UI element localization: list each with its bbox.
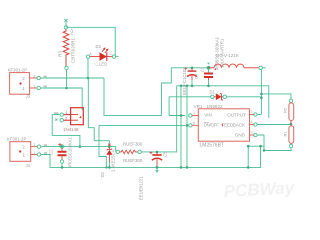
svg-text:C: C	[110, 52, 113, 56]
svg-text:R1: R1	[282, 131, 287, 137]
svg-text:ON/OFF: ON/OFF	[204, 123, 220, 128]
svg-text:A: A	[90, 52, 93, 56]
connector J1 outside pin labels	[34, 143, 48, 155]
ground mid rail	[177, 86, 269, 118]
svg-text:VIN: VIN	[204, 112, 212, 117]
wire J1 pin1 to ground rail	[41, 146, 261, 167]
junction R2 bottom wire	[263, 149, 265, 151]
svg-text:3: 3	[251, 131, 253, 135]
power +5 supply symbol	[64, 19, 67, 26]
svg-text:2: 2	[65, 116, 67, 120]
svg-text:RUEF300: RUEF300	[123, 158, 143, 163]
svg-text:D3: D3	[96, 44, 102, 49]
wire FEEDBACK pin to divider	[257, 124, 291, 126]
TVS diode D2	[106, 144, 112, 169]
wire inductor to output pin column	[260, 70, 262, 115]
U1 ON/OFF pin label	[204, 122, 220, 127]
wire ON/OFF control net	[99, 125, 185, 140]
svg-text:C5: C5	[163, 151, 168, 157]
wire LED right stub	[116, 56, 119, 58]
output top rail	[171, 67, 208, 69]
svg-text:1: 1	[34, 151, 36, 155]
svg-text:J3: J3	[26, 94, 31, 99]
svg-text:10UC-KARTR1: 10UC-KARTR1	[220, 38, 225, 68]
svg-text:5: 5	[193, 122, 195, 126]
svg-text:J1: J1	[26, 163, 31, 168]
connector J1 KF301-2P	[10, 142, 41, 162]
connector J3 outside pin labels	[34, 75, 47, 89]
resistor R3	[63, 26, 69, 70]
svg-text:C1: C1	[200, 66, 205, 72]
svg-text:FEEDBACK: FEEDBACK	[221, 123, 245, 128]
svg-text:LM2576BT: LM2576BT	[200, 142, 224, 148]
svg-text:+5V: +5V	[70, 28, 75, 36]
svg-text:1.5KE15CA: 1.5KE15CA	[110, 149, 115, 172]
svg-text:PCBWay: PCBWay	[223, 178, 296, 201]
svg-text:1N5822: 1N5822	[207, 104, 224, 109]
LED D3	[86, 48, 115, 61]
wire J3 pin1 net horizontal	[40, 88, 82, 110]
capacitor C1 ceramic	[204, 63, 213, 87]
svg-text:2: 2	[22, 76, 25, 81]
svg-text:RUEF300: RUEF300	[123, 142, 143, 147]
wire LED anode down to pin2 net	[87, 58, 90, 79]
pin header JP1	[54, 108, 83, 125]
fuse F1 RUEF300	[116, 150, 141, 154]
svg-text:VR1: VR1	[194, 104, 203, 109]
svg-text:EEUFC1C102: EEUFC1C102	[182, 67, 187, 95]
svg-text:2: 2	[22, 145, 25, 150]
svg-text:1: 1	[22, 153, 25, 158]
svg-text:KF301-2P: KF301-2P	[8, 67, 27, 72]
svg-text:4: 4	[251, 120, 253, 124]
wire GND pin to ground	[257, 135, 288, 151]
U1 feedback red tick mark	[221, 124, 223, 127]
capacitor C5 electrolytic	[150, 151, 163, 172]
svg-text:D1: D1	[210, 89, 216, 94]
svg-text:2: 2	[251, 110, 253, 114]
wire ON/OFF ground column	[186, 85, 189, 168]
svg-text:D2: D2	[100, 171, 105, 177]
svg-text:1N4148: 1N4148	[63, 127, 79, 132]
svg-text:C4: C4	[194, 73, 199, 79]
junction dots bottom rail	[105, 166, 188, 169]
svg-text:1: 1	[65, 111, 67, 115]
svg-text:C2: C2	[49, 149, 54, 155]
resistor R1 lower	[288, 125, 294, 151]
wire J3 pin2 net horizontal	[40, 77, 104, 79]
wire output net staircase to top rail	[104, 68, 171, 116]
svg-text:2: 2	[34, 143, 36, 147]
connector J3 KF301-2P	[10, 73, 41, 95]
wire VIN column from mid rail	[180, 85, 183, 168]
op-amp U1 LM2576BT regulator	[189, 109, 257, 141]
svg-text:1: 1	[193, 111, 195, 115]
wire LED anode net down left column	[88, 78, 94, 141]
wire ground rail end link	[247, 145, 264, 169]
svg-text:KF301-2P: KF301-2P	[7, 137, 26, 142]
svg-text:EEUEB1221: EEUEB1221	[138, 176, 143, 200]
diode D1 schottky	[211, 93, 227, 100]
inductor L1	[209, 64, 266, 70]
wire link to TVS top	[94, 141, 109, 147]
capacitor C2 polarity mark	[58, 143, 61, 146]
svg-text:4R05SC103KA1: 4R05SC103KA1	[68, 137, 73, 168]
svg-text:R3: R3	[58, 51, 63, 57]
wire JP1 pin1 to input net loop	[52, 115, 81, 148]
svg-text:R2: R2	[282, 107, 287, 113]
svg-text:∟LED: ∟LED	[95, 62, 107, 67]
wire diode row	[169, 97, 261, 116]
svg-text:CBT50J5R1: CBT50J5R1	[71, 38, 76, 63]
svg-text:2: 2	[34, 75, 36, 79]
wire TVS to fuse	[111, 147, 117, 152]
svg-text:GND: GND	[235, 133, 246, 138]
junction feedback divider	[290, 123, 293, 126]
junction output column to diode row	[260, 97, 263, 100]
svg-text:1: 1	[22, 86, 25, 91]
junction output column to R1 feed	[260, 93, 291, 97]
wire R3 top to LED cathode	[66, 26, 115, 55]
svg-text:OUTPUT: OUTPUT	[227, 112, 246, 117]
wire J1 pin2 input net	[41, 146, 110, 148]
resistor R2 upper	[289, 96, 294, 123]
junction R3 bottom on pin1 net	[65, 70, 68, 90]
svg-text:1: 1	[34, 85, 36, 89]
wire OUTPUT pin to column	[257, 114, 261, 116]
wire fuse to C5 and up column	[141, 86, 177, 152]
capacitor C4 electrolytic	[184, 67, 197, 88]
wire led-anode column to bottom rail jog	[99, 141, 106, 168]
capacitor C2	[58, 145, 67, 169]
